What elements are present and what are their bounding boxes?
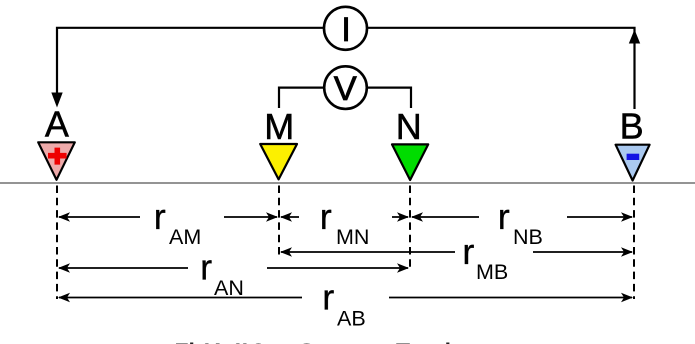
wire voltmeter right to N — [368, 88, 412, 108]
current arrow into A — [51, 93, 62, 108]
distance line r_MB — [281, 251, 632, 253]
distance line r_AM — [59, 216, 277, 218]
svg-text:V: V — [334, 70, 357, 108]
dashed projection line below A — [56, 186, 58, 300]
svg-text:A: A — [45, 104, 69, 145]
svg-text:MB: MB — [476, 260, 508, 284]
caption (cut off at bottom edge) — [175, 339, 452, 344]
svg-text:r: r — [498, 196, 510, 237]
minus symbol in B — [627, 154, 640, 160]
dashed projection line below N — [409, 186, 411, 271]
svg-text:8: 8 — [252, 339, 265, 344]
wire voltmeter left to M — [279, 88, 324, 108]
current arrow up at B — [629, 30, 640, 44]
electrode M (potential) — [260, 144, 297, 179]
wire right from ammeter to B — [367, 28, 635, 109]
distance line r_AN — [59, 267, 408, 269]
distance line r_AB — [59, 297, 632, 299]
svg-text:AM: AM — [169, 225, 201, 249]
electrode B (current, -) — [616, 145, 650, 181]
dashed projection line below M — [278, 186, 280, 256]
svg-text:N: N — [396, 106, 422, 147]
svg-text:B: B — [620, 106, 644, 147]
svg-text:NB: NB — [513, 225, 543, 249]
plus symbol in A — [48, 148, 67, 165]
distance line r_MN — [281, 216, 408, 218]
svg-text:M: M — [264, 106, 294, 147]
wire left from ammeter to A — [57, 28, 323, 93]
dashed projection line below B — [633, 186, 635, 300]
voltmeter V — [324, 66, 367, 109]
svg-text:I: I — [341, 11, 351, 49]
svg-text:4: 4 — [209, 339, 222, 344]
distance line r_NB — [412, 216, 632, 218]
svg-text:r: r — [320, 196, 332, 237]
svg-text:r: r — [322, 277, 334, 318]
svg-text:r: r — [462, 231, 474, 272]
svg-text:1: 1 — [238, 339, 251, 344]
svg-text:AN: AN — [214, 276, 244, 300]
ammeter I — [324, 7, 367, 50]
electrode N (potential) — [392, 144, 428, 180]
svg-text:r: r — [154, 196, 166, 237]
svg-text:r: r — [200, 247, 212, 288]
svg-text:Source: Source — [299, 339, 377, 344]
svg-text:Temi: Temi — [396, 339, 452, 344]
white backgrounds for distance labels — [140, 202, 224, 232]
ground surface line — [0, 182, 695, 184]
electrode A (current, +) — [38, 142, 75, 180]
svg-text:AB: AB — [337, 307, 366, 331]
svg-text:MN: MN — [336, 225, 369, 249]
